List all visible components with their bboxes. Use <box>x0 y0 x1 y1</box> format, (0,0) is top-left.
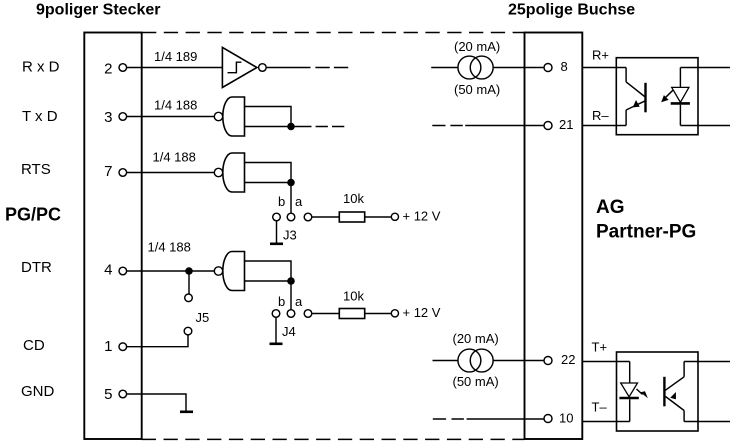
svg-text:1: 1 <box>104 338 112 355</box>
current source CS2 (20mA/50mA) <box>453 331 499 389</box>
wire into current source CS1 <box>431 67 458 69</box>
wire CS1 to pin 8 <box>493 67 544 69</box>
svg-text:2: 2 <box>104 61 112 78</box>
svg-text:1/4 188: 1/4 188 <box>154 98 197 113</box>
svg-text:10: 10 <box>559 411 573 426</box>
svg-text:J3: J3 <box>283 228 297 243</box>
svg-text:10k: 10k <box>343 289 364 304</box>
svg-text:AG: AG <box>596 197 625 218</box>
terminal +12V (DTR) <box>391 310 398 317</box>
wire into pin 21 <box>465 125 544 127</box>
svg-text:25polige Buchse: 25polige Buchse <box>508 2 635 19</box>
wire U3 bottom input <box>245 182 292 184</box>
wire J3 to resistor R1 <box>312 216 340 218</box>
svg-text:R x D: R x D <box>22 58 60 75</box>
wire pin3 to NAND U2 <box>127 116 215 118</box>
wire pin4 to NAND U4 <box>127 270 215 272</box>
NAND U4 (1/4 188 DTR, mirrored) <box>214 252 244 291</box>
svg-text:CD: CD <box>23 337 45 354</box>
svg-text:T–: T– <box>592 400 608 415</box>
svg-text:4: 4 <box>104 262 112 279</box>
svg-text:a: a <box>295 194 303 209</box>
wire R- <box>582 125 626 127</box>
svg-text:+ 12 V: + 12 V <box>403 305 441 320</box>
wire U4 top input tie <box>245 261 292 281</box>
svg-text:b: b <box>278 194 285 209</box>
pin 7 <box>104 163 126 180</box>
svg-text:b: b <box>278 294 285 309</box>
svg-text:a: a <box>295 294 303 309</box>
wire R2 to +12V terminal <box>365 313 392 315</box>
wire dashed continuation RxD <box>315 67 348 69</box>
wire U3 top input tie <box>245 163 292 183</box>
wire U4 bottom input <box>245 280 292 282</box>
wire into pin 10 <box>467 418 544 420</box>
svg-text:(20 mA): (20 mA) <box>453 331 499 346</box>
wire into current source CS2 <box>433 360 458 362</box>
ground at pin5 <box>180 410 193 413</box>
pin 8 <box>544 59 568 74</box>
wire OC1 right bottom <box>680 125 730 127</box>
pin 3 <box>104 109 126 126</box>
svg-text:R+: R+ <box>592 48 609 63</box>
svg-text:3: 3 <box>104 109 112 126</box>
svg-text:PG/PC: PG/PC <box>5 205 61 225</box>
optocoupler OC2 box <box>617 352 699 431</box>
wire dashed continuation TxD left <box>316 126 345 128</box>
pin 2 <box>104 61 126 78</box>
svg-text:8: 8 <box>561 59 568 74</box>
wire OC1 right top <box>680 67 730 69</box>
wire pin2 to inverter <box>127 67 223 69</box>
wire pin5 to ground <box>127 394 186 411</box>
pin 21 <box>544 117 573 132</box>
25-pin connector body <box>525 33 583 440</box>
svg-text:7: 7 <box>104 163 112 180</box>
svg-text:5: 5 <box>104 386 112 403</box>
wire R1 to +12V terminal <box>365 216 392 218</box>
NAND U3 (1/4 188 RTS, mirrored) <box>214 153 244 192</box>
junction dot DTR <box>185 267 193 275</box>
svg-text:9poliger Stecker: 9poliger Stecker <box>36 2 161 19</box>
jumper J5 <box>184 294 209 335</box>
svg-text:DTR: DTR <box>21 259 52 276</box>
svg-text:1/4 188: 1/4 188 <box>153 150 196 165</box>
wire pin7 to NAND U3 <box>127 172 215 174</box>
svg-text:R–: R– <box>592 108 609 123</box>
pin 10 <box>544 411 573 426</box>
svg-text:1/4 188: 1/4 188 <box>148 240 191 255</box>
pin 22 <box>544 352 575 367</box>
resistor R2 10k <box>339 309 364 319</box>
pin 5 <box>104 386 126 403</box>
resistor R1 10k <box>339 212 364 222</box>
svg-text:(50 mA): (50 mA) <box>454 82 500 97</box>
light arrow OC2 <box>637 389 648 398</box>
LED D1 (OC1) <box>671 68 690 126</box>
pin 4 <box>104 262 126 279</box>
svg-text:RTS: RTS <box>21 161 51 178</box>
wire dashed continuation T- left <box>433 418 464 420</box>
svg-text:10k: 10k <box>343 191 364 206</box>
svg-text:(20 mA): (20 mA) <box>454 39 500 54</box>
junction dot DTR gate <box>287 277 295 285</box>
wire CS2 to pin 22 <box>493 360 544 362</box>
svg-text:T x D: T x D <box>22 108 58 125</box>
phototransistor Q1 (OC1) <box>626 68 645 126</box>
wire OC2 right bottom <box>684 421 730 423</box>
wire DTR gate junction down to J4 <box>290 281 292 310</box>
wire T- <box>582 421 629 423</box>
ground at J3 <box>270 221 283 244</box>
terminal +12V (RTS) <box>391 213 398 220</box>
svg-text:1/4 189: 1/4 189 <box>154 49 197 64</box>
svg-text:T+: T+ <box>592 339 608 354</box>
wire U2 bottom input <box>245 126 312 128</box>
ground at J4 <box>270 317 283 344</box>
junction dot TxD <box>287 123 295 131</box>
wire pin1 to J5 <box>127 335 188 347</box>
svg-text:21: 21 <box>559 117 573 132</box>
light arrow OC1 <box>661 90 673 102</box>
9-pin connector body <box>84 33 141 440</box>
jumper J4 <box>272 294 312 339</box>
wire R+ <box>582 67 626 69</box>
dashed top border of converter <box>142 32 525 34</box>
junction dot RTS <box>287 179 295 187</box>
wire RTS junction down to J3 <box>290 183 292 214</box>
svg-text:J5: J5 <box>196 310 210 325</box>
jumper J3 <box>273 194 312 243</box>
svg-text:GND: GND <box>21 383 55 400</box>
dashed bottom border of converter <box>142 438 525 440</box>
wire J4 to resistor R2 <box>312 313 340 315</box>
current source CS1 (20mA/50mA) <box>454 39 500 97</box>
inverter U1 (1/4 189) <box>222 47 266 87</box>
wire dashed continuation TxD right <box>432 125 463 127</box>
svg-text:Partner-PG: Partner-PG <box>596 222 696 243</box>
phototransistor Q2 (OC2) <box>664 362 684 422</box>
pin 1 <box>104 338 126 355</box>
LED D2 (OC2) <box>619 362 638 422</box>
wire inverter output <box>266 67 310 69</box>
svg-text:+ 12 V: + 12 V <box>403 209 441 224</box>
wire U2 top input tie <box>245 107 292 127</box>
wire OC2 right top <box>684 361 730 363</box>
svg-text:J4: J4 <box>282 324 296 339</box>
optocoupler OC1 box <box>616 58 698 135</box>
wire DTR junction down to J5 <box>188 271 190 294</box>
svg-text:22: 22 <box>561 352 575 367</box>
svg-text:(50 mA): (50 mA) <box>453 374 499 389</box>
wire T+ <box>582 361 629 363</box>
NAND U2 (1/4 188 TxD, mirrored) <box>214 97 244 136</box>
